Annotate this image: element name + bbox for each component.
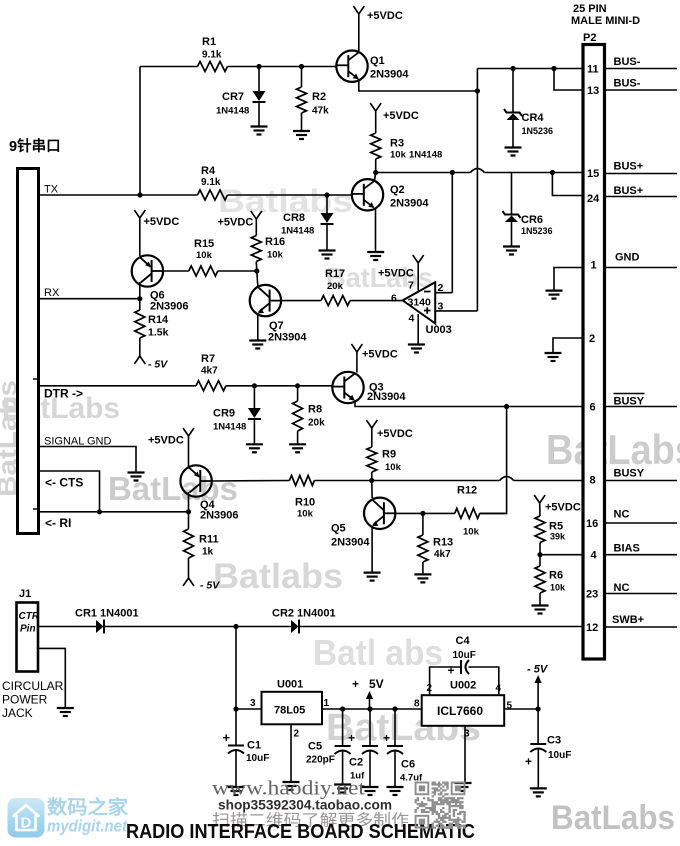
ground CR7 <box>251 125 268 127</box>
resistor R17 20k <box>321 296 350 306</box>
svg-text:BUS+: BUS+ <box>614 161 644 173</box>
ground pin 2 <box>545 352 562 354</box>
node Q4 base junction <box>186 509 191 514</box>
connector J1 power jack body <box>17 603 39 672</box>
node R8 junction <box>295 383 300 388</box>
ground pin 1 <box>546 290 563 292</box>
svg-text:Batlabs: Batlabs <box>213 557 343 596</box>
svg-text:1N4148: 1N4148 <box>213 422 246 433</box>
svg-text:+5VDC: +5VDC <box>362 349 398 361</box>
wire J1 to CR1 <box>38 626 96 628</box>
svg-text:23: 23 <box>586 589 598 601</box>
wire pin 8 BUSY <box>314 480 499 482</box>
svg-text:12: 12 <box>586 622 598 634</box>
svg-text:C3: C3 <box>547 735 561 747</box>
capacitor C3 10uF <box>537 709 539 743</box>
svg-text:- 5V: - 5V <box>527 664 549 676</box>
svg-text:5V: 5V <box>369 677 384 691</box>
ground R6 <box>532 604 549 606</box>
svg-text:- 5V: - 5V <box>148 359 168 371</box>
ground U002 pin3 <box>455 782 472 784</box>
svg-text:+: + <box>383 731 390 745</box>
svg-text:R12: R12 <box>457 485 477 497</box>
svg-text:<- CTS: <- CTS <box>45 476 83 490</box>
power +5VDC Q3 <box>351 344 357 352</box>
svg-text:+: + <box>448 664 455 678</box>
wire U002 pin 3 down <box>464 726 466 782</box>
resistor R12 10k <box>455 508 480 518</box>
svg-text:1: 1 <box>324 698 330 709</box>
wire Q1 collector to +5VDC <box>358 14 360 51</box>
wire Q2 emitter to ground <box>375 208 377 251</box>
wire R16 junction to Q7 <box>257 271 258 286</box>
svg-text:4k7: 4k7 <box>434 549 451 560</box>
resistor R3 10k <box>375 111 377 133</box>
svg-text:Q5: Q5 <box>331 523 346 535</box>
svg-text:mydigit.net: mydigit.net <box>47 817 128 836</box>
resistor R2 47k <box>301 67 303 88</box>
svg-text:1: 1 <box>591 260 597 272</box>
svg-text:R17: R17 <box>325 268 345 280</box>
svg-text:Batl abs: Batl abs <box>313 632 443 673</box>
ground Q5 <box>364 571 381 573</box>
overline BUSY <box>614 393 645 395</box>
svg-text:3140: 3140 <box>408 297 432 309</box>
svg-text:BatLabs: BatLabs <box>546 426 680 473</box>
power +5VDC R16 <box>251 211 256 219</box>
ground C3 <box>530 787 547 789</box>
wire pin1 ground stub <box>554 268 583 290</box>
svg-text:R6: R6 <box>549 570 563 582</box>
svg-text:2N3904: 2N3904 <box>390 198 429 210</box>
wire CTS <box>39 471 100 512</box>
node R16/Q7 junction <box>254 268 259 273</box>
node R5/R6 junction <box>537 552 542 557</box>
svg-text:BUS-: BUS- <box>614 78 641 90</box>
transistor Q1 2N3904 <box>336 50 367 81</box>
pin tick DTR <box>33 378 38 380</box>
node -5V junction <box>536 706 541 711</box>
svg-text:20k: 20k <box>327 281 344 292</box>
wire SIGNAL GND <box>39 447 136 472</box>
connector J2 9-pin serial body <box>18 169 39 534</box>
wire pin2 ground stub <box>553 338 583 352</box>
svg-text:MALE MINI-D: MALE MINI-D <box>571 15 640 27</box>
wire Q4 emitter from +5VDC <box>188 436 190 467</box>
arrow +5V rail <box>369 696 371 709</box>
node TX/R1 junction <box>137 192 142 197</box>
svg-text:10k: 10k <box>463 527 480 538</box>
svg-text:C4: C4 <box>456 635 471 647</box>
wire Q6 collector to R15 <box>163 270 189 272</box>
svg-text:P2: P2 <box>583 32 596 44</box>
wire RI <box>39 511 189 513</box>
svg-text:9.1k: 9.1k <box>202 50 222 61</box>
resistor R13 4k7 <box>422 513 424 535</box>
svg-text:CIRCULAR: CIRCULAR <box>2 679 64 693</box>
svg-text:+5VDC: +5VDC <box>144 216 180 228</box>
node pin 6 riser junction <box>504 404 509 409</box>
node op-amp pin2 riser junction <box>450 170 455 175</box>
diode CR7 1N4148 <box>258 67 260 92</box>
svg-text:J1: J1 <box>19 588 31 600</box>
wire R15 to R16 junction <box>218 270 257 272</box>
svg-text:10uF: 10uF <box>453 650 476 661</box>
ground CR4 <box>505 146 522 148</box>
converter U002 ICL7660 box <box>422 695 505 726</box>
svg-text:R9: R9 <box>382 449 396 461</box>
svg-text:D: D <box>21 815 32 832</box>
node RX junction <box>137 296 142 301</box>
svg-text:CR6: CR6 <box>521 214 543 226</box>
svg-text:4: 4 <box>409 313 415 325</box>
wire C1 branch vertical <box>235 627 237 745</box>
svg-text:R3: R3 <box>390 138 404 150</box>
svg-text:9.1k: 9.1k <box>201 177 221 188</box>
transistor Q7 2N3904 <box>250 285 281 316</box>
wire pin 24 drop <box>552 173 581 196</box>
node R2 junction <box>299 64 304 69</box>
svg-text:BUS-: BUS- <box>614 56 641 68</box>
svg-text:CR8: CR8 <box>283 212 305 224</box>
resistor R15 10k <box>189 266 218 276</box>
diode CR4 zener 1N5236 <box>512 69 514 113</box>
svg-text:10k: 10k <box>385 462 402 473</box>
wire Q3 emitter to BUSY- wire <box>355 401 582 407</box>
svg-text:2N3904: 2N3904 <box>367 391 406 403</box>
svg-text:78L05: 78L05 <box>274 705 305 717</box>
wire Q4 base to junction <box>188 495 190 512</box>
svg-text:POWER: POWER <box>2 693 48 707</box>
svg-text:R15: R15 <box>194 238 214 250</box>
node C1/U001 branch <box>233 624 238 629</box>
wire BIAS to pin 4 <box>540 554 582 556</box>
wire pin 2 stub <box>435 292 452 294</box>
svg-text:R4: R4 <box>201 165 216 177</box>
svg-text:8: 8 <box>414 699 420 710</box>
ground Q7 <box>249 339 266 341</box>
svg-text:220pF: 220pF <box>306 755 335 766</box>
node CR9 junction <box>252 383 257 388</box>
wire pin 4 to ground <box>417 314 419 344</box>
resistor R10 10k <box>289 476 314 486</box>
svg-text:C1: C1 <box>247 740 261 752</box>
svg-text:20k: 20k <box>308 418 325 429</box>
svg-text:Q7: Q7 <box>269 320 284 332</box>
wire RX <box>39 298 140 300</box>
transistor Q5 2N3904 <box>364 498 395 529</box>
svg-text:Q1: Q1 <box>370 55 385 67</box>
resistor R4 9.1k <box>198 190 228 200</box>
wire CR1 to CR2 <box>104 626 291 628</box>
svg-text:+5VDC: +5VDC <box>378 268 414 280</box>
svg-text:CR4: CR4 <box>522 112 545 124</box>
svg-text:C2: C2 <box>349 757 363 769</box>
svg-text:U002: U002 <box>450 680 476 692</box>
wire DTR <box>39 385 196 387</box>
svg-text:SWB+: SWB+ <box>612 614 644 626</box>
ground U003 pin 4 <box>408 343 425 345</box>
svg-text:BatLabs: BatLabs <box>108 470 238 507</box>
wire Q1 emitter <box>359 79 478 91</box>
svg-text:1N4148: 1N4148 <box>216 106 249 117</box>
svg-text:BUS+: BUS+ <box>614 185 644 197</box>
power +5VDC R9 <box>366 420 372 428</box>
svg-text:1N4148: 1N4148 <box>281 226 314 237</box>
node pin13 junction <box>551 66 556 71</box>
resistor R9 10k <box>371 428 373 447</box>
node U001 pin3 junction <box>233 706 238 711</box>
svg-text:NC: NC <box>614 509 630 521</box>
svg-text:GND: GND <box>615 252 640 264</box>
svg-text:2N3904: 2N3904 <box>268 332 307 344</box>
svg-text:5: 5 <box>507 701 513 712</box>
svg-text:6: 6 <box>391 293 397 305</box>
svg-text:数码之家: 数码之家 <box>47 796 129 819</box>
svg-text:7: 7 <box>408 280 414 292</box>
node R9/Q5 junction <box>369 478 374 483</box>
svg-text:R13: R13 <box>433 537 453 549</box>
resistor R14 1.5k <box>139 299 141 310</box>
power +5VDC U003 pin 7 <box>413 255 419 263</box>
ground CR9 <box>246 443 263 445</box>
wire Q7 collector to R17 <box>281 300 321 302</box>
node pin 24 junction <box>550 170 555 175</box>
node CR7 junction <box>256 64 261 69</box>
wire U002 pin 5 <box>504 708 538 710</box>
svg-text:CR9: CR9 <box>213 408 235 420</box>
svg-text:R7: R7 <box>201 353 215 365</box>
svg-text:+5VDC: +5VDC <box>383 110 419 122</box>
wire Q6 to RX junction <box>139 285 141 299</box>
svg-text:2N3904: 2N3904 <box>331 537 370 549</box>
svg-text:R1: R1 <box>202 36 216 48</box>
wire BUS+ horizontal <box>376 172 471 174</box>
power +5VDC R5 <box>534 495 540 503</box>
svg-text:U003: U003 <box>426 324 452 336</box>
node C6 junction <box>392 706 397 711</box>
wire Q3 collector <box>356 352 358 373</box>
node CTS/RI junction <box>97 509 102 514</box>
node R3/Q2 collector junction <box>373 170 378 175</box>
svg-text:1N4148: 1N4148 <box>409 150 442 161</box>
svg-text:BIAS: BIAS <box>614 543 640 555</box>
op-amp U003 CA3140 <box>403 282 436 323</box>
power +5VDC Q4 <box>183 428 189 436</box>
svg-text:NC: NC <box>614 582 630 594</box>
svg-text:+: + <box>525 755 532 769</box>
diode CR1 1N4001 <box>96 620 104 633</box>
svg-text:10k: 10k <box>267 250 284 261</box>
ground U001 pin2 <box>283 781 300 783</box>
wire pin 7 <box>417 263 419 291</box>
transistor Q2 2N3904 <box>352 179 383 210</box>
svg-text:C5: C5 <box>308 741 322 753</box>
wire hop pin8 over riser <box>500 477 514 481</box>
svg-text:1N5236: 1N5236 <box>522 126 554 136</box>
ground R2 <box>293 130 310 132</box>
svg-text:R8: R8 <box>308 404 322 416</box>
svg-text:+: + <box>352 677 359 691</box>
svg-text:10uF: 10uF <box>246 753 269 764</box>
wire to U001 pin 3 <box>236 708 262 710</box>
svg-text:BUSY: BUSY <box>614 396 645 408</box>
ground CR6 <box>503 245 520 247</box>
svg-text:R2: R2 <box>312 91 326 103</box>
svg-text:10k: 10k <box>196 250 213 261</box>
svg-text:R14: R14 <box>148 314 169 326</box>
svg-text:1N5236: 1N5236 <box>521 226 553 236</box>
wire hop BUS+ over riser <box>470 169 484 173</box>
svg-text:3: 3 <box>250 698 256 709</box>
transistor Q6 2N3906 <box>132 255 163 286</box>
wire TX from serial port <box>39 194 198 196</box>
svg-text:1k: 1k <box>202 547 214 558</box>
resistor R16 10k <box>255 219 257 236</box>
svg-text:BatLabs: BatLabs <box>551 799 675 837</box>
capacitor C2 1uf <box>369 709 371 745</box>
svg-text:25 PIN: 25 PIN <box>573 3 607 15</box>
wire C4 loop <box>430 667 461 695</box>
svg-text:10uF: 10uF <box>548 750 571 761</box>
wire R12 right lead <box>480 512 507 514</box>
svg-text:1.5k: 1.5k <box>148 327 169 339</box>
transistor Q3 2N3904 <box>332 372 363 403</box>
regulator U001 78L05 box <box>262 692 323 725</box>
wire riser pin6 to R12 <box>480 407 507 514</box>
svg-text:6: 6 <box>590 402 596 414</box>
wire pin 3 stub <box>435 310 477 312</box>
resistor R11 1k <box>188 512 190 529</box>
ground C2 <box>362 786 379 788</box>
wire U001 pin 2 down <box>290 724 292 781</box>
svg-text:4: 4 <box>591 550 598 562</box>
svg-text:<- RI: <- RI <box>45 516 71 530</box>
svg-text:47k: 47k <box>312 106 329 117</box>
svg-text:10k: 10k <box>550 583 566 593</box>
svg-text:CR2 1N4001: CR2 1N4001 <box>272 608 336 620</box>
wire Q2 collector <box>374 173 375 182</box>
svg-text:2: 2 <box>294 729 300 740</box>
capacitor C5 220pF <box>342 709 344 745</box>
power -5V R11 <box>183 578 189 586</box>
svg-text:SIGNAL GND: SIGNAL GND <box>44 436 111 448</box>
ground C5 <box>334 783 351 785</box>
wire Q5 emitter to ground <box>371 526 373 572</box>
diode CR9 1N4148 <box>253 386 255 408</box>
svg-text:- 5V: - 5V <box>200 580 220 592</box>
svg-text:TX: TX <box>44 184 59 196</box>
svg-text:C6: C6 <box>401 759 415 771</box>
node C5 junction <box>340 706 345 711</box>
svg-text:10k: 10k <box>297 509 314 520</box>
svg-text:+5VDC: +5VDC <box>545 502 581 514</box>
wire U001 pin 1 to +5V rail <box>322 708 422 710</box>
node CR4 junction <box>510 66 515 71</box>
resistor R5 39k <box>539 503 541 516</box>
diode CR8 1N4148 <box>326 195 328 213</box>
svg-text:Q2: Q2 <box>390 184 405 196</box>
node R12/R13 junction <box>420 511 425 516</box>
svg-text:11: 11 <box>587 64 599 76</box>
wire Q5 collector <box>395 512 454 514</box>
node Q1 emitter / BUS- riser <box>475 88 480 93</box>
svg-text:R11: R11 <box>199 534 219 546</box>
diode CR2 1N4001 <box>291 620 299 633</box>
svg-text:Pin: Pin <box>20 624 36 635</box>
ground Q2 <box>367 251 384 253</box>
svg-text:39k: 39k <box>550 532 566 542</box>
pin tick RI <box>33 508 38 510</box>
wire Q6 emitter from +5VDC <box>139 218 141 256</box>
resistor R6 10k <box>539 555 541 566</box>
svg-text:8: 8 <box>590 475 596 487</box>
svg-text:2N3904: 2N3904 <box>370 69 409 81</box>
svg-text:CR1 1N4001: CR1 1N4001 <box>75 608 139 620</box>
wire riser to op-amp pin 2 <box>451 173 453 293</box>
wire Q4 collector to R10 <box>212 480 290 483</box>
svg-text:CTR: CTR <box>19 611 40 622</box>
wire BUS- riser (to op-amp pin 3) <box>476 69 478 311</box>
power +5VDC Q1 <box>353 6 359 14</box>
svg-text:+: + <box>348 731 355 745</box>
node CR8 junction <box>324 192 329 197</box>
node C2 junction <box>367 706 372 711</box>
wire R17 to op-amp <box>350 300 403 302</box>
svg-text:BUSY: BUSY <box>614 468 645 480</box>
svg-text:4k7: 4k7 <box>201 366 218 377</box>
svg-text:+5VDC: +5VDC <box>377 428 413 440</box>
svg-text:15: 15 <box>587 168 599 180</box>
power +5VDC R3 <box>370 103 376 111</box>
svg-text:+5VDC: +5VDC <box>218 217 254 229</box>
power +5VDC Q6 <box>134 210 140 218</box>
svg-text:13: 13 <box>587 85 599 97</box>
svg-text:CR7: CR7 <box>222 91 244 103</box>
wire Q7 emitter to ground <box>257 314 259 340</box>
ground C6 <box>387 786 404 788</box>
ground R8 <box>289 443 306 445</box>
power -5V R14 <box>134 356 140 364</box>
svg-text:+5VDC: +5VDC <box>148 435 184 447</box>
wire J1 lower stub to ground <box>38 648 65 707</box>
wire Q5 base from pin8 net <box>371 481 373 499</box>
wire pin 13 drop <box>554 69 582 91</box>
wire BUS- horizontal to pin 11 <box>477 68 581 70</box>
ground J1 <box>57 707 74 709</box>
svg-text:+5VDC: +5VDC <box>367 10 403 22</box>
svg-text:24: 24 <box>587 193 600 205</box>
svg-text:2N3906: 2N3906 <box>200 510 239 522</box>
svg-text:R16: R16 <box>265 236 285 248</box>
resistor R7 4k7 <box>196 381 226 391</box>
arrow -5V up <box>537 680 539 709</box>
svg-text:2: 2 <box>589 333 595 345</box>
svg-text:ICL7660: ICL7660 <box>437 704 483 718</box>
svg-text:16: 16 <box>586 518 598 530</box>
wire R1 to Q1 base <box>228 66 337 68</box>
svg-text:9针串口: 9针串口 <box>9 137 61 155</box>
svg-text:RX: RX <box>44 287 60 299</box>
wire R1 branch vertical <box>139 67 141 196</box>
capacitor C4 10uF <box>460 660 462 674</box>
ground SIGNAL GND <box>128 471 145 473</box>
diode CR6 zener 1N5236 <box>511 173 513 215</box>
ground CR8 <box>319 249 336 251</box>
svg-text:10k: 10k <box>390 150 407 161</box>
svg-text:JACK: JACK <box>2 706 33 720</box>
svg-text:2N3906: 2N3906 <box>150 301 189 313</box>
